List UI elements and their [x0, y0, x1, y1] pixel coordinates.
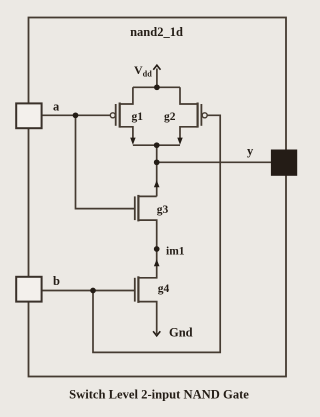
svg-text:a: a — [53, 99, 60, 113]
g1 bubble — [110, 113, 115, 118]
svg-text:g4: g4 — [158, 283, 170, 295]
port a square — [16, 103, 41, 128]
g3 drain arrowhead (up) — [154, 180, 160, 187]
svg-text:g1: g1 — [132, 111, 144, 123]
svg-text:b: b — [53, 274, 60, 288]
g4 gate bar — [134, 278, 136, 302]
g1 channel bar — [119, 103, 121, 128]
wire b to gate of g4 — [42, 290, 135, 292]
node dot im1 — [154, 246, 160, 252]
g2 source arrowhead — [177, 138, 182, 145]
wire g1 drain jog — [120, 87, 133, 104]
wire b branch to gate of g2 — [93, 115, 220, 352]
g3 channel bar — [137, 195, 139, 222]
g2 channel bar — [197, 103, 199, 128]
svg-text:g2: g2 — [164, 111, 176, 123]
node dot b junction — [90, 288, 96, 294]
g2 bubble — [202, 113, 207, 118]
svg-text:g3: g3 — [157, 204, 169, 216]
wire a branch down to gate of g3 — [76, 115, 135, 208]
wire g2 drain jog — [180, 87, 197, 104]
transistor g3 (nmos) — [135, 195, 139, 222]
g2 gate bar — [200, 104, 202, 126]
wire g4 source to gnd — [138, 302, 156, 334]
port y square (filled) — [271, 150, 296, 175]
g1 source arrowhead — [130, 138, 135, 145]
node dot Vdd rail — [154, 84, 160, 90]
wire g2 source jog — [180, 127, 198, 138]
g4 drain arrowhead (up) — [154, 259, 160, 266]
wire Vdd stem — [156, 69, 158, 88]
node dot pmos bottom rail — [154, 142, 160, 148]
wire a to gate of g1 — [42, 114, 111, 116]
cell boundary box — [29, 18, 287, 377]
wire output vertical to g3 — [156, 145, 158, 196]
transistor g2 (pmos) — [198, 103, 208, 128]
svg-text:Gnd: Gnd — [169, 326, 193, 340]
wire g3 drain horizontal — [138, 195, 156, 197]
svg-text:Switch Level 2-input NAND Gate: Switch Level 2-input NAND Gate — [69, 388, 249, 402]
svg-text:y: y — [247, 144, 254, 158]
Vdd arrow (open chevron up) — [153, 65, 160, 70]
svg-text:im1: im1 — [166, 246, 185, 258]
wire y output — [157, 161, 272, 163]
Gnd arrow (open chevron down) — [153, 331, 160, 336]
wire pmos top rail — [133, 86, 180, 88]
g3 gate bar — [134, 196, 136, 220]
g1 gate bar — [115, 104, 117, 126]
wire g1 source jog — [120, 127, 133, 138]
node dot a junction — [73, 112, 79, 118]
wire pmos bottom rail — [133, 144, 180, 146]
transistor g4 (nmos) — [135, 276, 139, 303]
node dot y branch — [154, 159, 160, 165]
transistor g1 (pmos) — [110, 103, 119, 128]
port b square — [16, 277, 41, 302]
g4 channel bar — [137, 276, 139, 303]
svg-text:nand2_1d: nand2_1d — [130, 25, 183, 39]
wire g3 source to im1 to g4 drain — [138, 220, 156, 278]
